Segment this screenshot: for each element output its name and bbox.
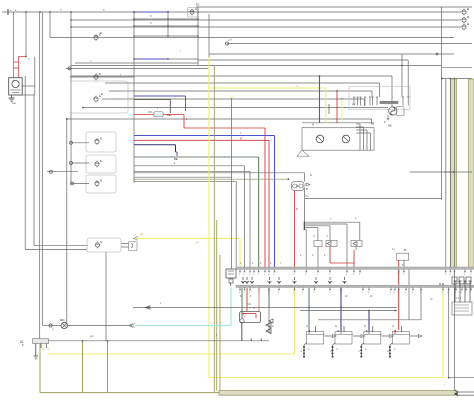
svg-text:BE: BE [167, 113, 171, 117]
svg-text:E: E [100, 137, 102, 141]
svg-text:+: + [12, 79, 14, 83]
svg-text:w: w [28, 58, 30, 61]
svg-text:E: E [100, 159, 102, 163]
svg-text:BE: BE [174, 157, 178, 161]
svg-text:m: m [330, 350, 332, 353]
svg-text:m: m [365, 348, 367, 351]
svg-text:m: m [313, 235, 315, 238]
svg-text:gm: gm [90, 335, 93, 338]
svg-text:E: E [101, 240, 103, 244]
svg-text:E: E [99, 72, 101, 76]
svg-text:R: R [296, 207, 298, 211]
svg-text:S: S [310, 173, 312, 177]
svg-text:1 2 3: 1 2 3 [456, 298, 462, 300]
svg-text:m: m [308, 348, 310, 351]
svg-text:GN: GN [247, 303, 251, 306]
svg-text:m: m [42, 348, 44, 351]
svg-text:15A: 15A [148, 110, 153, 114]
svg-text:m: m [47, 348, 49, 351]
svg-text:sw: sw [352, 103, 355, 106]
svg-text:E2: E2 [196, 3, 200, 7]
svg-text:R: R [253, 307, 255, 310]
svg-text:MD: MD [60, 318, 64, 322]
svg-text:E: E [101, 92, 103, 96]
svg-text:inj: inj [392, 247, 395, 251]
svg-text:F: F [22, 343, 24, 347]
svg-text:m: m [336, 348, 338, 351]
svg-text:Tm: Tm [305, 194, 309, 198]
svg-text:m: m [296, 85, 298, 88]
svg-text:+: + [15, 8, 17, 12]
svg-text:m: m [393, 348, 395, 351]
svg-text:+: + [10, 8, 12, 12]
svg-text:E: E [195, 7, 197, 11]
svg-text:NE: NE [388, 124, 392, 128]
svg-text:B: B [150, 21, 152, 25]
svg-text:bat: bat [12, 101, 16, 105]
svg-text:B: B [150, 14, 152, 18]
svg-text:m: m [358, 350, 360, 353]
svg-text:m: m [326, 235, 328, 238]
svg-text:E: E [100, 179, 102, 183]
svg-text:m: m [300, 350, 302, 353]
svg-text:E: E [100, 31, 102, 35]
svg-text:D: D [306, 187, 308, 191]
svg-text:m: m [387, 350, 389, 353]
